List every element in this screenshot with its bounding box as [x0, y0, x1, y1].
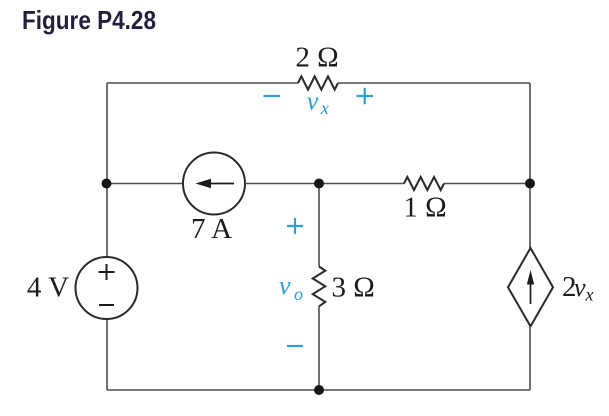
svg-text:vx: vx: [307, 87, 329, 119]
wire right vertical top: [529, 83, 531, 248]
svg-text:2 Ω: 2 Ω: [295, 42, 338, 74]
arrow of current source pointing left: [208, 183, 234, 185]
wire left vertical bottom: [106, 319, 108, 390]
wire top-right segment: [338, 82, 530, 84]
label minus of vx: [264, 95, 281, 97]
svg-text:vo: vo: [279, 271, 303, 304]
dependent source diamond 2vx: [508, 248, 553, 326]
wire middle horizontal center: [245, 183, 404, 185]
wire middle vertical top: [318, 184, 320, 267]
svg-text:3 Ω: 3 Ω: [332, 272, 375, 304]
current source I1 7A circle: [183, 153, 245, 215]
wire middle horizontal left: [107, 183, 183, 185]
node at left middle: [102, 179, 112, 189]
svg-text:4 V: 4 V: [27, 272, 69, 304]
node at right middle: [525, 179, 535, 189]
wire middle vertical bottom: [318, 306, 320, 390]
resistor 1ohm zigzag: [404, 177, 444, 190]
svg-text:1 Ω: 1 Ω: [403, 191, 446, 223]
wire bottom: [107, 389, 530, 391]
label plus of vx: [357, 88, 374, 104]
wire middle horizontal right: [444, 183, 530, 185]
wire left vertical top: [106, 83, 108, 257]
node at center middle: [314, 179, 324, 189]
svg-text:2vx: 2vx: [562, 271, 594, 305]
svg-text:Figure P4.28: Figure P4.28: [22, 5, 156, 35]
minus sign inside source: [99, 304, 114, 306]
arrow inside dependent source: [530, 276, 532, 304]
plus sign inside source: [99, 264, 115, 280]
resistor R 2ohm zigzag: [298, 76, 338, 89]
wire top-left segment: [107, 82, 298, 84]
resistor 3ohm zigzag vertical: [313, 267, 326, 307]
node at bottom center: [314, 385, 324, 395]
label plus of vo: [287, 218, 303, 234]
svg-text:7 A: 7 A: [191, 213, 232, 245]
voltage source V1 4V circle: [76, 257, 138, 319]
label minus of vo: [287, 345, 303, 347]
wire right vertical bottom: [529, 326, 531, 390]
